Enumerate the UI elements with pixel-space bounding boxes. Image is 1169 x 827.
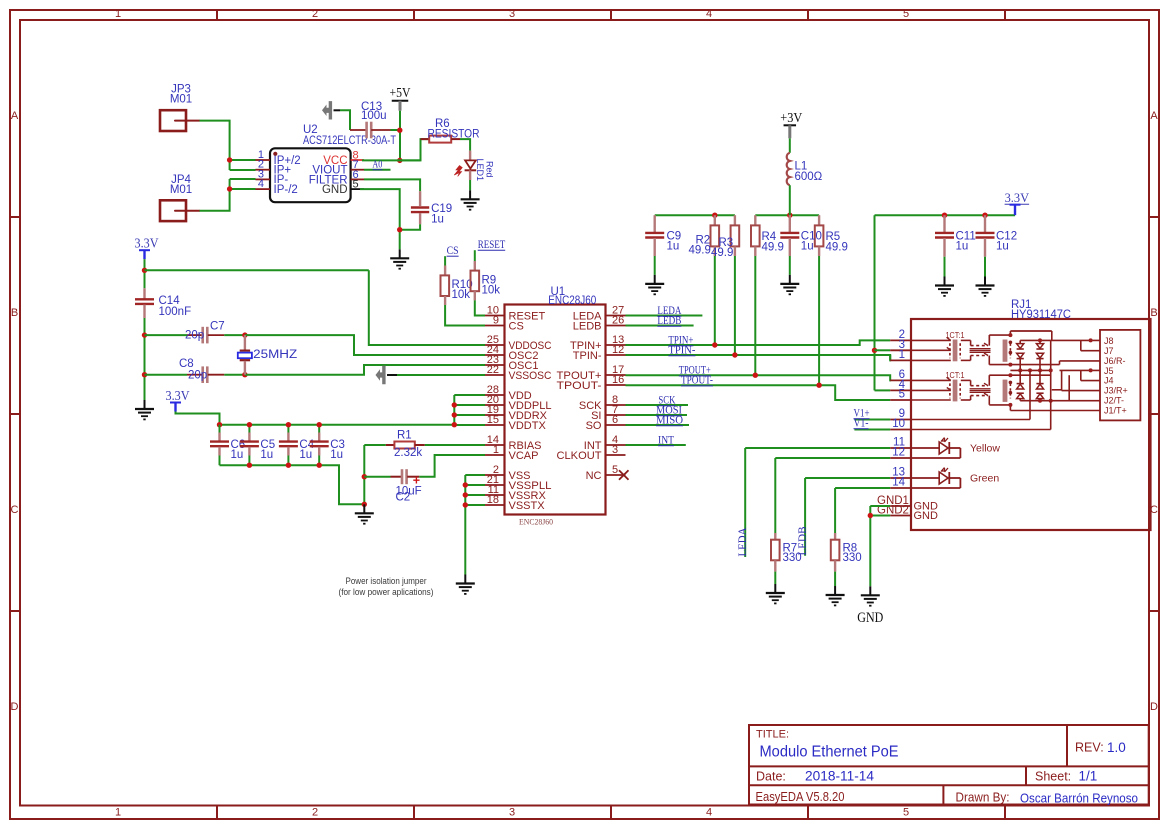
- svg-text:2.32k: 2.32k: [394, 447, 422, 459]
- svg-text:2018-11-14: 2018-11-14: [805, 768, 874, 784]
- svg-text:1: 1: [115, 807, 121, 819]
- svg-text:LEDB: LEDB: [795, 527, 809, 556]
- svg-text:Sheet:: Sheet:: [1035, 770, 1071, 784]
- svg-text:D: D: [11, 701, 19, 713]
- svg-text:D: D: [1150, 701, 1158, 713]
- svg-text:Date:: Date:: [756, 770, 786, 784]
- svg-text:TPOUT-: TPOUT-: [681, 373, 713, 387]
- svg-text:SO: SO: [586, 420, 602, 432]
- svg-text:1u: 1u: [996, 240, 1009, 252]
- svg-text:EasyEDA V5.8.20: EasyEDA V5.8.20: [756, 790, 845, 804]
- svg-text:Modulo Ethernet PoE: Modulo Ethernet PoE: [760, 744, 899, 761]
- svg-text:IP-/2: IP-/2: [274, 184, 298, 196]
- svg-text:16: 16: [612, 374, 624, 386]
- svg-text:22: 22: [487, 364, 499, 376]
- svg-text:TPIN-: TPIN-: [573, 350, 602, 362]
- svg-text:A: A: [11, 110, 19, 122]
- svg-text:2: 2: [312, 8, 318, 20]
- svg-text:V1-: V1-: [854, 416, 869, 430]
- svg-text:LEDA: LEDA: [735, 527, 749, 556]
- svg-text:VSSOSC: VSSOSC: [509, 370, 552, 382]
- svg-text:5: 5: [903, 8, 909, 20]
- svg-text:J7: J7: [1104, 346, 1114, 356]
- svg-text:1: 1: [115, 8, 121, 20]
- svg-text:20p: 20p: [188, 369, 207, 381]
- svg-text:TPOUT-: TPOUT-: [557, 380, 602, 392]
- svg-text:12: 12: [612, 344, 624, 356]
- svg-text:1u: 1u: [801, 240, 814, 252]
- svg-text:B: B: [11, 307, 18, 319]
- svg-text:5: 5: [353, 179, 359, 191]
- svg-text:LEDB: LEDB: [573, 321, 602, 333]
- svg-text:1/1: 1/1: [1079, 769, 1098, 784]
- svg-text:(for low power aplications): (for low power aplications): [339, 587, 434, 597]
- svg-text:1u: 1u: [667, 240, 680, 252]
- svg-text:ENC28J60: ENC28J60: [519, 517, 553, 527]
- svg-text:GND: GND: [322, 184, 348, 196]
- svg-text:18: 18: [487, 494, 499, 506]
- svg-text:600Ω: 600Ω: [795, 171, 823, 183]
- svg-text:4: 4: [706, 8, 712, 20]
- svg-text:Drawn By:: Drawn By:: [956, 791, 1010, 805]
- svg-text:J2/T-: J2/T-: [1104, 396, 1124, 406]
- svg-text:Oscar Barrón Reynoso: Oscar Barrón Reynoso: [1020, 792, 1138, 806]
- svg-text:100nF: 100nF: [159, 306, 192, 318]
- svg-text:VCAP: VCAP: [509, 450, 539, 462]
- svg-text:25MHZ: 25MHZ: [253, 349, 297, 361]
- svg-text:MISO: MISO: [656, 413, 683, 427]
- svg-text:3.3V: 3.3V: [135, 236, 159, 251]
- svg-text:+5V: +5V: [390, 85, 411, 100]
- svg-text:GND: GND: [914, 510, 939, 522]
- svg-text:2: 2: [312, 807, 318, 819]
- svg-text:M01: M01: [170, 184, 192, 196]
- svg-text:10: 10: [892, 418, 905, 430]
- svg-text:HY931147C: HY931147C: [1011, 309, 1071, 321]
- svg-text:9: 9: [493, 315, 499, 327]
- svg-text:GND: GND: [857, 610, 883, 626]
- svg-text:J4: J4: [1104, 376, 1114, 386]
- svg-text:INT: INT: [658, 433, 675, 447]
- svg-text:M01: M01: [170, 94, 192, 106]
- svg-text:ACS712ELCTR-30A-T: ACS712ELCTR-30A-T: [303, 135, 396, 147]
- svg-text:20p: 20p: [185, 330, 204, 342]
- svg-text:J1/T+: J1/T+: [1104, 406, 1127, 416]
- svg-text:TPIN-: TPIN-: [668, 343, 695, 357]
- svg-text:1u: 1u: [260, 449, 273, 461]
- svg-text:1u: 1u: [299, 449, 312, 461]
- svg-text:CS: CS: [447, 243, 459, 257]
- svg-text:3.3V: 3.3V: [1005, 191, 1030, 205]
- svg-text:C: C: [11, 504, 19, 516]
- svg-text:49.9: 49.9: [689, 245, 711, 257]
- svg-text:3: 3: [612, 444, 618, 456]
- svg-text:CLKOUT: CLKOUT: [557, 450, 602, 462]
- svg-text:1: 1: [899, 349, 905, 361]
- svg-text:VSSTX: VSSTX: [509, 500, 546, 512]
- svg-text:J5: J5: [1104, 366, 1114, 376]
- svg-text:3: 3: [509, 807, 515, 819]
- svg-text:ENC28J60: ENC28J60: [548, 295, 596, 307]
- svg-text:R1: R1: [397, 430, 412, 442]
- svg-text:VDDTX: VDDTX: [509, 420, 547, 432]
- svg-text:C2: C2: [396, 491, 411, 503]
- svg-text:LEDB: LEDB: [657, 313, 681, 327]
- svg-text:TITLE:: TITLE:: [756, 729, 789, 741]
- svg-text:5: 5: [899, 389, 905, 401]
- svg-text:NC: NC: [586, 470, 602, 482]
- svg-text:49.9: 49.9: [762, 242, 784, 254]
- svg-text:10k: 10k: [482, 285, 501, 297]
- svg-text:REV:: REV:: [1075, 741, 1104, 755]
- svg-text:3.3V: 3.3V: [166, 388, 190, 403]
- svg-text:12: 12: [892, 447, 905, 459]
- svg-text:4: 4: [258, 178, 264, 190]
- svg-text:6: 6: [612, 414, 618, 426]
- svg-text:1u: 1u: [231, 449, 244, 461]
- svg-text:RESET: RESET: [478, 237, 506, 251]
- svg-text:1u: 1u: [431, 214, 444, 226]
- svg-text:C7: C7: [210, 321, 225, 333]
- svg-text:1: 1: [493, 444, 499, 456]
- svg-text:LED1: LED1: [475, 159, 485, 182]
- svg-text:1u: 1u: [956, 240, 969, 252]
- svg-text:RESISTOR: RESISTOR: [428, 129, 480, 141]
- svg-text:5: 5: [612, 464, 618, 476]
- svg-text:1u: 1u: [330, 449, 343, 461]
- svg-text:CS: CS: [509, 321, 524, 333]
- svg-text:Power isolation jumper: Power isolation jumper: [346, 576, 427, 586]
- svg-text:100u: 100u: [361, 110, 387, 122]
- svg-text:4: 4: [706, 807, 712, 819]
- svg-text:26: 26: [612, 315, 624, 327]
- svg-text:14: 14: [892, 477, 905, 489]
- svg-text:A0: A0: [372, 159, 382, 171]
- svg-text:J6/R-: J6/R-: [1104, 356, 1126, 366]
- svg-text:Yellow: Yellow: [970, 443, 1000, 455]
- svg-text:B: B: [1150, 307, 1157, 319]
- svg-text:10k: 10k: [452, 289, 471, 301]
- svg-text:5: 5: [903, 807, 909, 819]
- svg-text:330: 330: [843, 552, 862, 564]
- svg-text:15: 15: [487, 414, 499, 426]
- svg-text:Red: Red: [485, 161, 495, 178]
- svg-text:+3V: +3V: [780, 110, 802, 125]
- svg-text:1.0: 1.0: [1107, 740, 1126, 755]
- svg-text:Green: Green: [970, 473, 999, 485]
- svg-text:49.9: 49.9: [826, 242, 848, 254]
- svg-text:A: A: [1150, 110, 1158, 122]
- svg-text:J8: J8: [1104, 336, 1114, 346]
- svg-text:J3/R+: J3/R+: [1104, 386, 1128, 396]
- svg-text:C8: C8: [179, 358, 194, 370]
- svg-text:3: 3: [509, 8, 515, 20]
